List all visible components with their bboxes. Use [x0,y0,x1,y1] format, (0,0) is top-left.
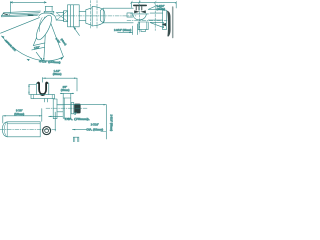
svg-text:DIA. (62mm): DIA. (62mm) [87,129,104,132]
svg-text:(150mm): (150mm) [14,113,24,116]
svg-text:2-3/16" (55mm): 2-3/16" (55mm) [110,115,113,132]
svg-text:(98mm): (98mm) [60,39,66,47]
svg-text:(20mm): (20mm) [61,89,70,92]
svg-text:ACTUAL ARC: ACTUAL ARC [4,39,17,52]
svg-text:150°: 150° [34,45,41,50]
svg-text:4-1/2" (115mm): 4-1/2" (115mm) [39,59,61,64]
svg-text:2-7/16": 2-7/16" [91,123,99,126]
svg-text:3-7/8": 3-7/8" [55,38,60,44]
svg-text:2-9/16" (65mm): 2-9/16" (65mm) [114,29,131,32]
svg-text:DIA. (75mm).: DIA. (75mm). [65,117,90,121]
svg-text:(40mm): (40mm) [157,8,166,11]
svg-text:2": 2" [74,111,76,115]
svg-text:(38mm): (38mm) [53,73,62,76]
